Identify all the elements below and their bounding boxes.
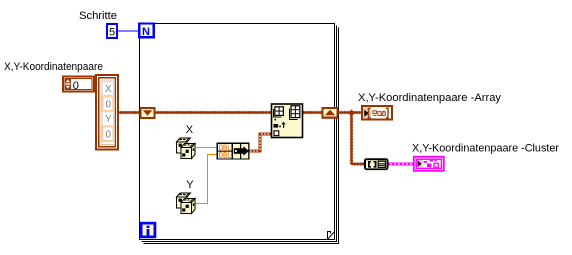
svg-text:N: N: [142, 26, 150, 38]
svg-text:X: X: [186, 124, 194, 136]
dot: [275, 119, 277, 121]
i terminal: [140, 222, 157, 238]
svg-text:Schritte: Schritte: [79, 10, 117, 22]
array indicator terminal: [362, 106, 392, 120]
left small 2x2 array grid with shadow: [274, 109, 282, 117]
wire blue 5 to N: [118, 30, 139, 32]
svg-text:5: 5: [109, 27, 115, 39]
array index display (spinner 0): [63, 77, 94, 93]
wire cluster (dotted brown): bundle to Build Array: [250, 134, 272, 151]
cluster element Y: [103, 112, 114, 126]
svg-text:0: 0: [106, 130, 112, 141]
fold corner (loop resize dog-ear): [328, 232, 335, 240]
constant 5: [106, 23, 118, 39]
wire magenta cluster: Index Array to cluster indicator: [389, 163, 414, 166]
Build Array node: [272, 104, 303, 138]
bundle node: [217, 143, 250, 161]
right 2x3 array grid with shadow: [290, 109, 298, 120]
for loop border: [140, 24, 339, 244]
wire: to Index Array (zigzag): [352, 163, 365, 165]
array constant shell: [96, 75, 118, 150]
svg-text:0: 0: [106, 100, 112, 111]
cluster element 0 (second): [103, 127, 114, 142]
wire junction: [348, 110, 355, 117]
right shift register: [322, 107, 339, 119]
small arrow glyph: [281, 122, 285, 125]
wire: left SR to Build Array (zigzag): [156, 111, 272, 113]
dice Y (random number): [177, 193, 196, 214]
Index Array node: [364, 158, 389, 170]
N terminal: [138, 23, 155, 39]
wire: junction down (vertical zigzag): [350, 116, 352, 165]
left shift register: [140, 107, 156, 119]
cluster indicator terminal: [414, 157, 444, 171]
wire orange: dice X to bundle: [195, 147, 217, 149]
svg-text:X: X: [105, 84, 112, 95]
svg-text:X,Y-Koordinatenpaare: X,Y-Koordinatenpaare: [4, 61, 103, 73]
svg-text:DBL: DBL: [219, 151, 231, 160]
svg-text:X,Y-Koordinatenpaare -Array: X,Y-Koordinatenpaare -Array: [358, 92, 502, 104]
svg-text:Y: Y: [186, 179, 194, 191]
wire: right SR to array indicator (zigzag): [339, 111, 362, 113]
svg-text:Y: Y: [105, 114, 112, 125]
wire orange: dice Y to bundle (L-shaped): [196, 155, 218, 204]
element square filled: [274, 124, 279, 128]
wire: array constant to left shift register (zigzag): [119, 111, 140, 113]
cluster element X: [103, 82, 114, 96]
svg-text:X,Y-Koordinatenpaare -Cluster: X,Y-Koordinatenpaare -Cluster: [412, 143, 559, 155]
cluster element 0 (first): [103, 97, 114, 112]
empty square: [274, 131, 279, 136]
svg-text:0: 0: [73, 80, 79, 92]
wire: Build Array to right SR (zigzag): [303, 111, 322, 113]
dice X (random number): [177, 138, 196, 159]
